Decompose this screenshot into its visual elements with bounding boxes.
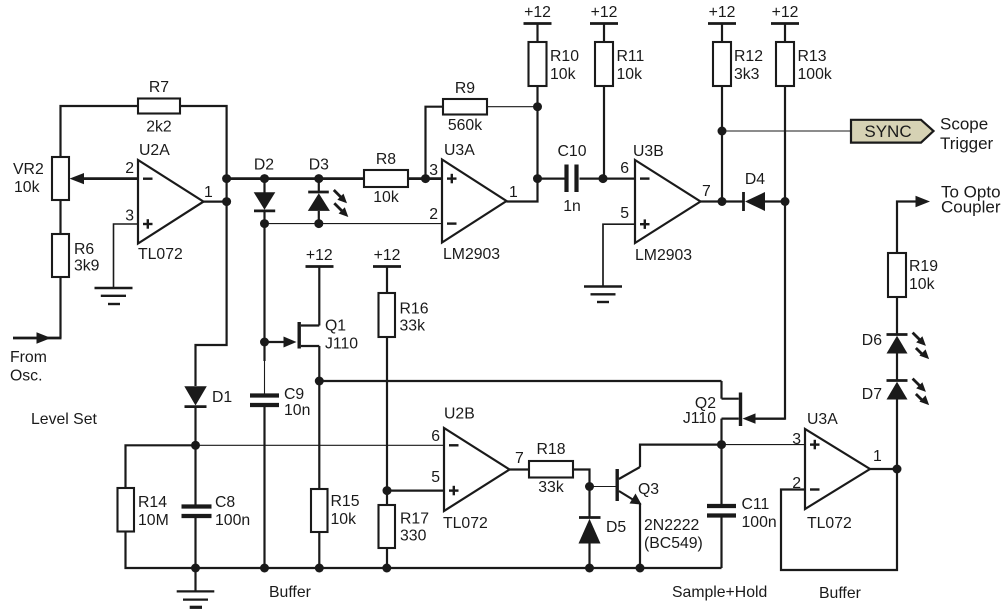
node rail Q3: [636, 564, 645, 573]
svg-text:100k: 100k: [798, 66, 832, 83]
wiper arrow VR2: [70, 173, 139, 184]
node signal tee: [222, 174, 231, 183]
resistor R13: [776, 42, 832, 86]
svg-text:C9: C9: [284, 386, 304, 403]
wire R10 down: [536, 86, 538, 179]
svg-text:R6: R6: [74, 241, 94, 258]
svg-text:1n: 1n: [563, 198, 581, 215]
resistor R18: [529, 441, 573, 496]
wire lower D2-D3 line to U3A pin2: [265, 223, 443, 225]
resistor R10: [529, 42, 580, 86]
wire down to D1 jog: [196, 178, 227, 386]
wire pin5 link: [387, 490, 444, 492]
node hold cap: [717, 440, 726, 449]
op-amp U3A: [429, 142, 518, 263]
svg-text:Coupler: Coupler: [941, 198, 1001, 217]
power +12 R13: [771, 4, 799, 42]
svg-text:From: From: [10, 349, 47, 366]
wire SYNC line: [722, 130, 852, 132]
svg-text:10n: 10n: [284, 402, 310, 419]
LED D6: [862, 332, 929, 359]
svg-text:33k: 33k: [400, 318, 426, 335]
node C10 left: [533, 174, 542, 183]
svg-text:R13: R13: [798, 48, 827, 65]
resistor R6: [52, 234, 100, 277]
svg-text:+12: +12: [306, 247, 333, 264]
wire pin6 line: [196, 444, 445, 446]
svg-text:330: 330: [400, 528, 427, 545]
node D3 top: [314, 174, 323, 183]
wire R12 down: [721, 86, 723, 202]
svg-text:R10: R10: [550, 48, 579, 65]
wire U3B pin5 to ground: [603, 224, 635, 286]
power +12 Q1: [306, 247, 334, 267]
LED D3: [308, 157, 349, 224]
resistor R17: [379, 505, 429, 548]
resistor R14: [118, 488, 169, 532]
wire R16 down: [386, 337, 388, 505]
label To Opto Coupler: [941, 183, 1001, 217]
svg-text:TL072: TL072: [443, 515, 488, 532]
wire U3A output: [870, 468, 897, 470]
svg-text:R11: R11: [617, 48, 645, 65]
svg-text:1: 1: [873, 448, 882, 465]
svg-text:Trigger: Trigger: [940, 134, 994, 153]
potentiometer VR2: [13, 157, 69, 200]
wire C10 to U3B: [580, 178, 636, 180]
resistor R9: [443, 80, 487, 134]
svg-text:LM2903: LM2903: [443, 246, 500, 263]
svg-text:2: 2: [429, 206, 438, 223]
power +12 R16: [373, 247, 401, 293]
svg-text:2N2222: 2N2222: [644, 517, 699, 534]
transistor Q3 2N2222: [616, 467, 703, 552]
svg-text:C10: C10: [558, 143, 587, 160]
svg-text:TL072: TL072: [138, 246, 183, 263]
op-amp U2A: [125, 142, 213, 263]
svg-text:R12: R12: [734, 48, 763, 65]
node D2 bottom: [260, 219, 269, 228]
svg-text:100n: 100n: [742, 514, 777, 531]
wire U3A feedback loop: [781, 469, 897, 570]
node output junction: [222, 197, 231, 206]
wire R14 branch top: [126, 445, 196, 488]
svg-text:10M: 10M: [138, 512, 169, 529]
power +12 R10: [524, 4, 552, 42]
node R18 D5 base: [585, 482, 594, 491]
svg-text:R7: R7: [149, 79, 169, 96]
wire U3A output up to C10 line: [507, 179, 538, 202]
wire Q1 gate arrow: [265, 337, 297, 348]
label From Osc.: [10, 349, 47, 385]
svg-text:Scope: Scope: [940, 115, 988, 134]
svg-text:R8: R8: [376, 151, 396, 168]
svg-text:3: 3: [125, 208, 134, 225]
capacitor C9: [250, 386, 310, 419]
node rail D5: [585, 564, 594, 573]
wire D7 down to output node: [896, 400, 898, 470]
op-amp U3B: [620, 143, 711, 264]
svg-text:D5: D5: [606, 519, 626, 536]
svg-text:10k: 10k: [14, 179, 40, 196]
wire C11 top lead: [720, 445, 722, 505]
svg-text:2: 2: [125, 160, 134, 177]
svg-text:3k3: 3k3: [734, 66, 760, 83]
svg-text:C11: C11: [742, 496, 770, 513]
wire Q2 source down: [720, 419, 722, 445]
svg-text:Sample+Hold: Sample+Hold: [672, 584, 767, 601]
wire base node to D5: [588, 487, 590, 518]
svg-text:D6: D6: [862, 332, 882, 349]
wire Q1 drain to +12: [318, 267, 320, 326]
svg-text:3: 3: [429, 162, 438, 179]
svg-text:7: 7: [515, 450, 524, 467]
wire U2B output: [510, 468, 530, 470]
node R11 bottom: [599, 174, 608, 183]
svg-text:100n: 100n: [215, 512, 250, 529]
svg-text:+12: +12: [709, 4, 736, 21]
svg-text:6: 6: [431, 428, 440, 445]
flag SYNC: [851, 120, 934, 143]
svg-text:5: 5: [620, 205, 629, 222]
wire D2 branch down: [263, 224, 265, 361]
node rail R17: [382, 564, 391, 573]
svg-text:R9: R9: [455, 80, 475, 97]
wire R18 to Q3 base: [573, 470, 590, 487]
node rail C8: [191, 564, 200, 573]
wire R7 top loop: [61, 106, 227, 178]
power +12 R11: [590, 4, 618, 42]
diode D5: [579, 518, 627, 569]
input arrow From Osc.: [13, 332, 62, 344]
svg-text:D3: D3: [309, 157, 329, 174]
node D3 bottom: [314, 219, 323, 228]
svg-text:10k: 10k: [331, 511, 357, 528]
svg-text:+12: +12: [772, 4, 799, 21]
wire C10 line: [538, 178, 567, 180]
wire R19 to D6: [896, 297, 898, 334]
wire VR2 to R6: [59, 200, 61, 234]
wire Q3 collector: [640, 445, 722, 467]
transistor Q2 J110: [683, 393, 742, 428]
svg-text:J110: J110: [683, 410, 716, 427]
label Scope Trigger: [940, 115, 994, 154]
wire Q3 emitter down: [639, 503, 641, 568]
diode D4: [744, 171, 786, 211]
capacitor C10: [558, 143, 587, 215]
wire U2A pin3: [114, 224, 139, 288]
svg-text:R15: R15: [331, 493, 360, 510]
svg-text:3: 3: [792, 431, 801, 448]
svg-text:TL072: TL072: [807, 515, 852, 532]
node rail R15: [315, 564, 324, 573]
node U3A output: [893, 465, 902, 474]
svg-text:10k: 10k: [909, 276, 935, 293]
wire D6 to D7: [896, 354, 898, 381]
svg-text:U2A: U2A: [139, 142, 170, 159]
diode D1: [184, 386, 232, 445]
svg-text:Buffer: Buffer: [269, 584, 311, 601]
svg-text:Osc.: Osc.: [10, 368, 42, 385]
node D4 R13: [781, 197, 790, 206]
svg-text:10k: 10k: [373, 189, 399, 206]
svg-text:(BC549): (BC549): [644, 535, 703, 552]
wire R17 bottom: [386, 548, 388, 568]
svg-text:R17: R17: [400, 511, 429, 528]
svg-text:Buffer: Buffer: [819, 585, 861, 602]
svg-text:6: 6: [620, 160, 629, 177]
wire R13 down: [784, 86, 786, 202]
svg-text:D2: D2: [254, 157, 274, 174]
wire R9 loop: [426, 107, 444, 179]
svg-text:+12: +12: [591, 4, 618, 21]
resistor R12: [713, 42, 763, 86]
svg-text:33k: 33k: [538, 479, 564, 496]
svg-text:D4: D4: [745, 171, 765, 188]
svg-text:Q1: Q1: [325, 318, 346, 335]
svg-text:1: 1: [509, 184, 518, 201]
ground U2A: [95, 288, 133, 304]
resistor R16: [379, 293, 429, 337]
svg-text:J110: J110: [325, 336, 358, 353]
node rail D2 branch: [260, 564, 269, 573]
resistor R7: [138, 79, 180, 136]
node R16 R17 pin5: [383, 486, 392, 495]
svg-text:VR2: VR2: [13, 161, 44, 178]
wire R6 down to input: [59, 277, 61, 338]
wire main signal line: [227, 177, 364, 180]
wire C8 bottom: [194, 516, 196, 568]
svg-text:5: 5: [431, 469, 440, 486]
svg-text:R18: R18: [537, 441, 566, 458]
wire To Opto arrow: [897, 196, 930, 253]
node Q1 source junction: [315, 377, 324, 386]
LED D7: [862, 379, 929, 406]
svg-text:7: 7: [702, 183, 711, 200]
resistor R19: [888, 253, 938, 297]
node R12 output: [718, 197, 727, 206]
svg-text:LM2903: LM2903: [635, 247, 692, 264]
wire R13 node down to Q2 gate: [752, 202, 785, 419]
wire hold rail to Q2 drain: [319, 380, 721, 382]
svg-text:C8: C8: [215, 494, 235, 511]
svg-text:+12: +12: [374, 247, 401, 264]
diode D2: [254, 157, 276, 224]
wire Q2 gate arrow: [743, 413, 756, 423]
wire R9 to R10 node: [487, 106, 538, 108]
resistor R8: [364, 151, 408, 206]
svg-text:10k: 10k: [550, 66, 576, 83]
svg-text:U2B: U2B: [444, 406, 475, 423]
wire R14 bottom: [126, 532, 196, 569]
svg-text:3k9: 3k9: [74, 258, 100, 275]
node Q1 gate: [260, 338, 269, 347]
svg-text:R19: R19: [909, 258, 938, 275]
transistor Q1 J110: [298, 318, 359, 353]
wire Q2 drain: [720, 381, 722, 399]
op-amp U2B: [431, 406, 524, 533]
resistor R11: [595, 42, 645, 86]
wire C11 bottom lead: [720, 516, 722, 569]
wire U2A output: [204, 201, 227, 203]
svg-text:560k: 560k: [448, 117, 482, 134]
wire hold node to U3A pin3: [722, 444, 806, 446]
wire R11 down: [603, 86, 605, 177]
wire D1 to C8: [194, 445, 196, 505]
svg-text:Q3: Q3: [638, 481, 659, 498]
svg-text:+12: +12: [524, 4, 551, 21]
svg-text:SYNC: SYNC: [864, 122, 911, 141]
node R9/R10: [533, 102, 542, 111]
wire R8 to U3A: [408, 177, 442, 180]
svg-text:U3B: U3B: [633, 143, 664, 160]
wire C9 bottom: [263, 405, 265, 568]
svg-text:D1: D1: [212, 389, 232, 406]
wire Q1 source down: [318, 346, 320, 489]
op-amp U3A buffer: [792, 411, 882, 532]
svg-text:R16: R16: [400, 301, 429, 318]
node D2 top: [260, 174, 269, 183]
capacitor C11: [707, 496, 777, 531]
svg-text:U3A: U3A: [444, 142, 475, 159]
wire R15 bottom: [318, 532, 320, 568]
wire U3B output: [701, 200, 744, 202]
svg-text:U3A: U3A: [807, 411, 838, 428]
svg-text:1: 1: [204, 184, 213, 201]
ground bottom: [177, 568, 215, 607]
svg-text:D7: D7: [862, 386, 882, 403]
capacitor C8: [182, 494, 251, 529]
node D1 cathode: [191, 441, 200, 450]
ground U3B: [584, 287, 622, 303]
svg-text:2k2: 2k2: [146, 119, 171, 136]
resistor R15: [311, 489, 360, 532]
power +12 R12: [708, 4, 736, 42]
node SYNC tee: [718, 127, 727, 136]
svg-text:R14: R14: [138, 494, 167, 511]
node R9 branch: [421, 174, 430, 183]
wire ground rail: [196, 567, 722, 569]
svg-text:Level Set: Level Set: [31, 411, 97, 428]
svg-text:10k: 10k: [617, 66, 643, 83]
